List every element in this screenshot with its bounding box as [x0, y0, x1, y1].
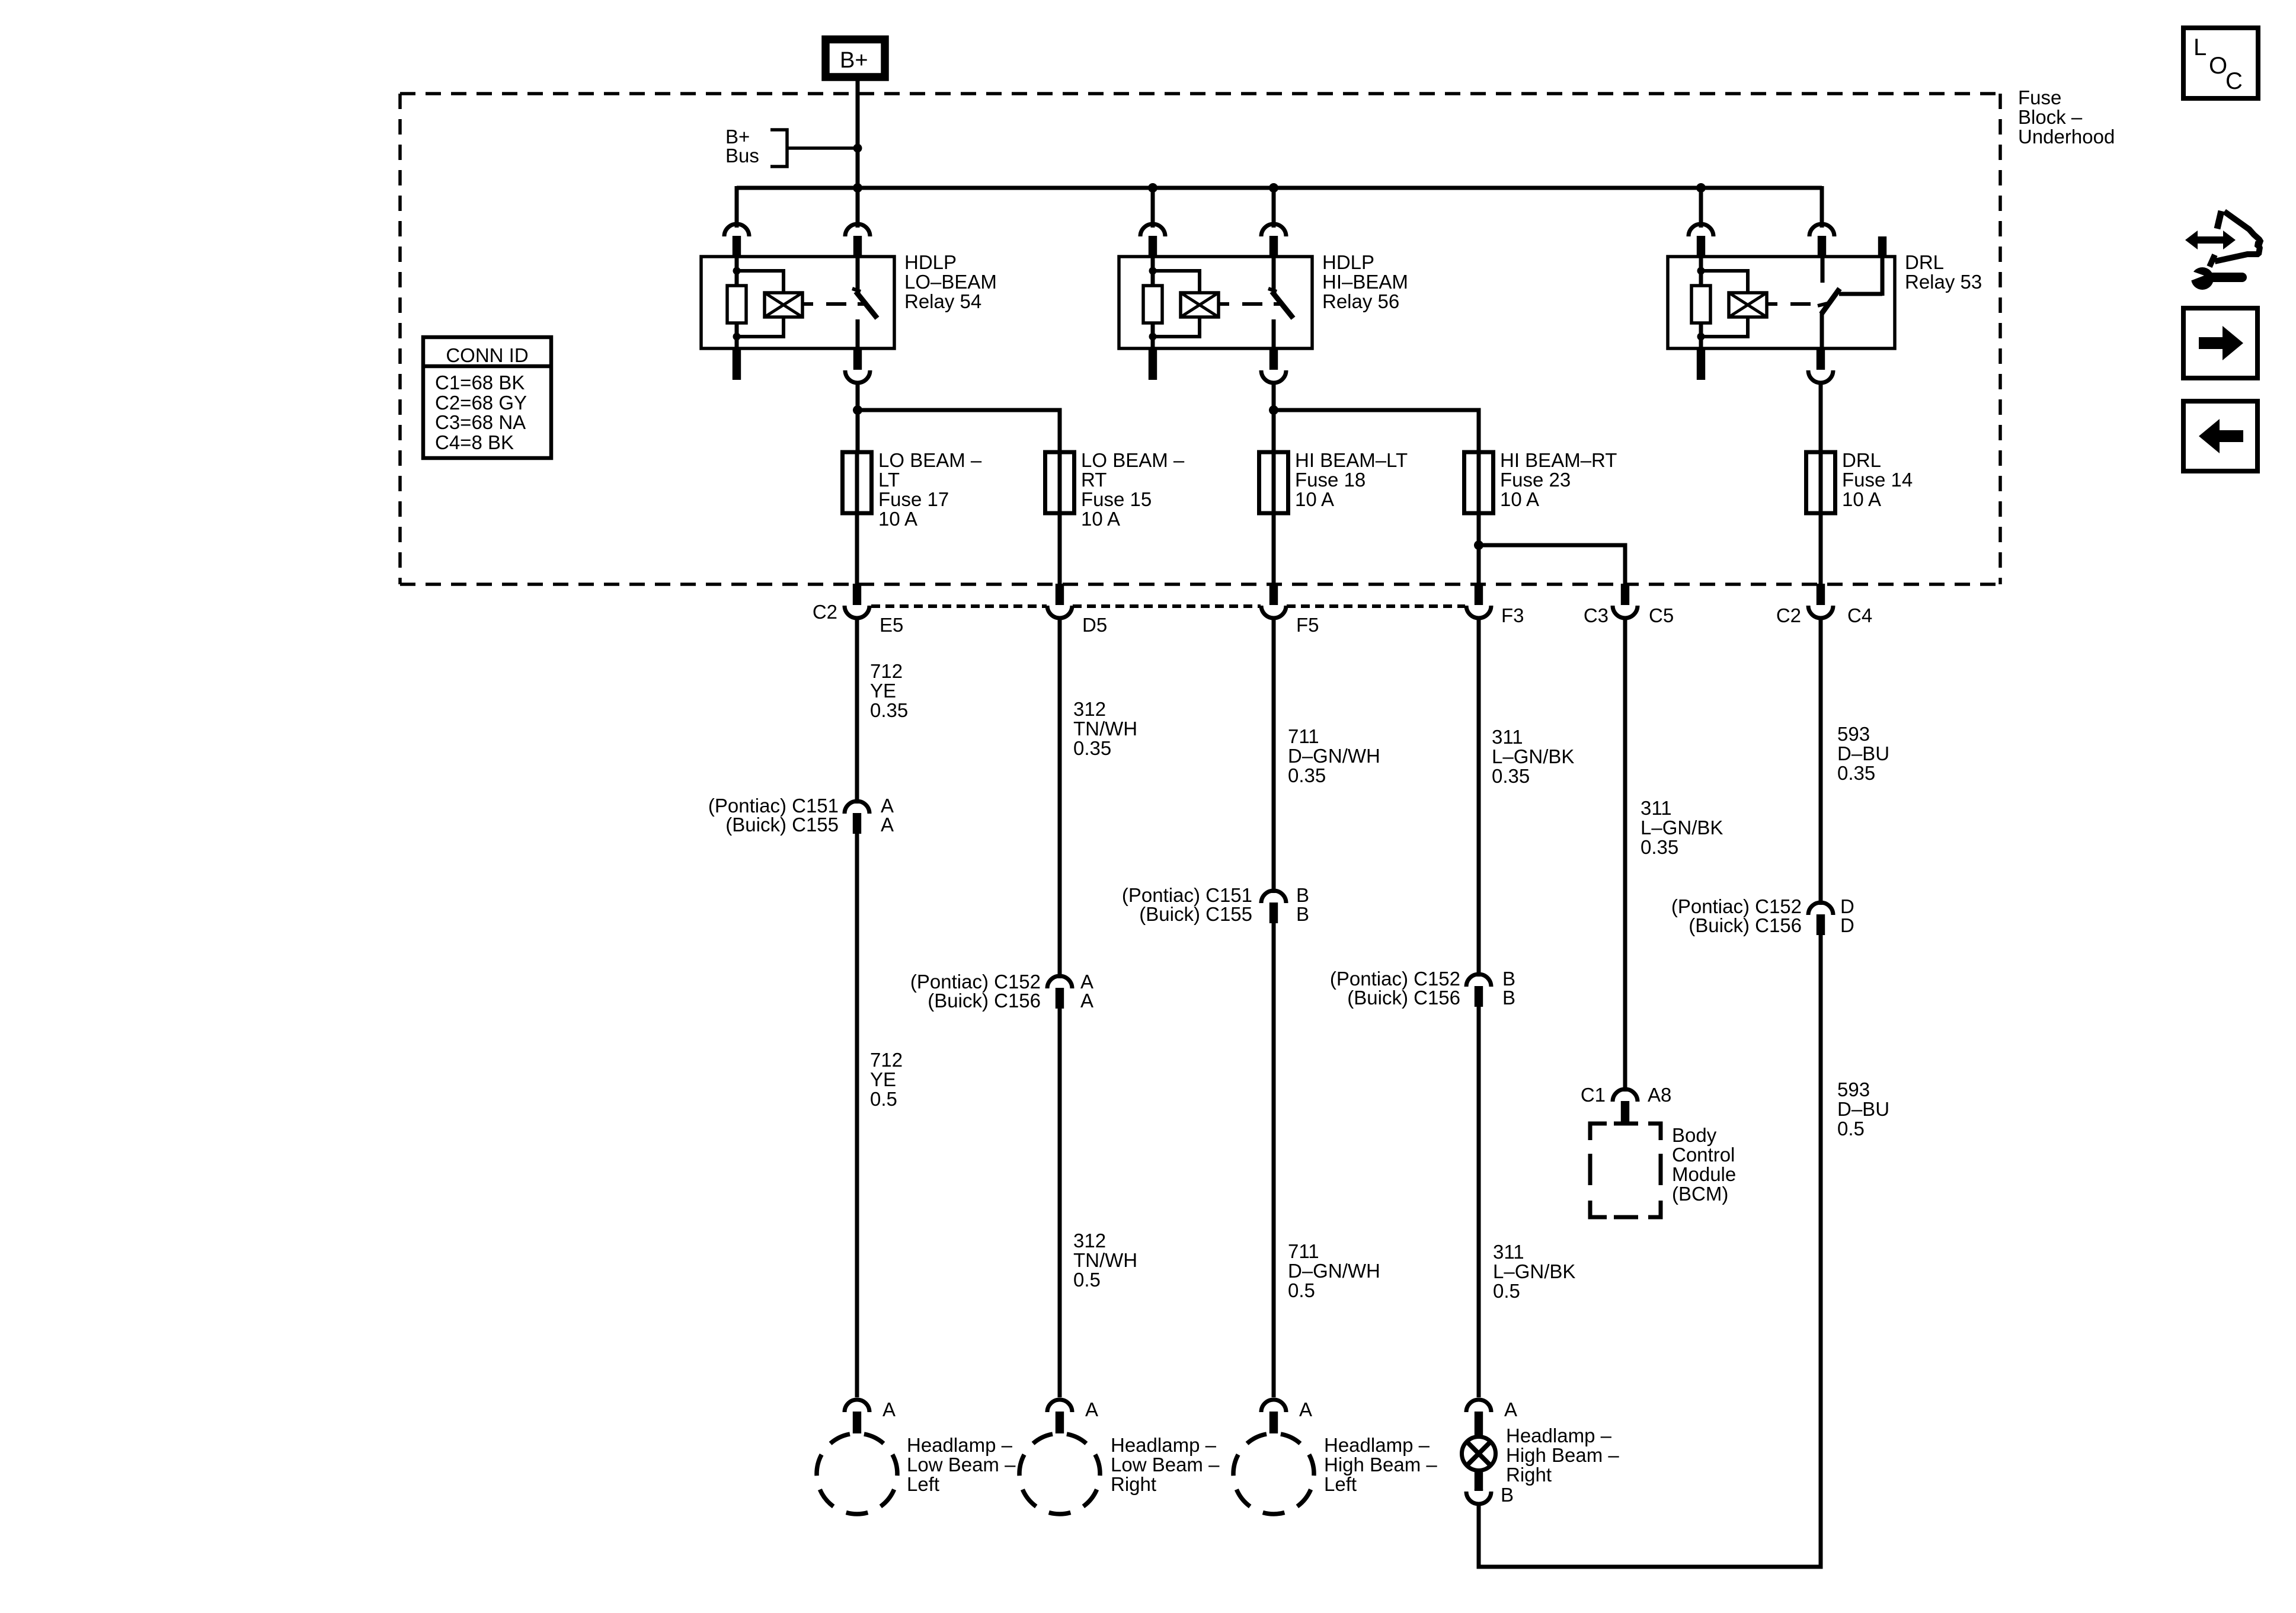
- svg-text:Relay 53: Relay 53: [1905, 271, 1982, 293]
- svg-text:D–GN/WH: D–GN/WH: [1288, 1260, 1380, 1282]
- svg-text:0.5: 0.5: [1288, 1279, 1315, 1301]
- svg-text:D–BU: D–BU: [1837, 743, 1889, 764]
- svg-text:Headlamp –: Headlamp –: [1506, 1425, 1612, 1446]
- svg-text:C2: C2: [1776, 604, 1801, 626]
- svg-text:HI–BEAM: HI–BEAM: [1322, 271, 1408, 293]
- svg-text:711: 711: [1288, 1240, 1319, 1262]
- svg-text:Block –: Block –: [2018, 106, 2083, 128]
- svg-text:B+: B+: [840, 48, 868, 73]
- svg-text:0.35: 0.35: [1492, 765, 1530, 787]
- svg-text:F5: F5: [1296, 614, 1319, 636]
- svg-text:Fuse 17: Fuse 17: [878, 488, 949, 510]
- svg-text:O: O: [2209, 53, 2227, 79]
- svg-text:D: D: [1840, 914, 1854, 936]
- svg-text:A: A: [882, 1398, 896, 1420]
- svg-text:711: 711: [1288, 725, 1319, 747]
- svg-text:10 A: 10 A: [1081, 508, 1120, 530]
- svg-text:C: C: [2225, 68, 2243, 94]
- svg-text:E5: E5: [880, 614, 903, 636]
- svg-text:Fuse 18: Fuse 18: [1295, 469, 1366, 491]
- svg-text:0.5: 0.5: [1073, 1269, 1101, 1291]
- svg-text:0.35: 0.35: [1288, 764, 1326, 786]
- svg-text:Left: Left: [907, 1473, 939, 1495]
- svg-text:C1: C1: [1581, 1084, 1606, 1106]
- svg-text:Bus: Bus: [725, 145, 759, 167]
- svg-text:LT: LT: [878, 469, 900, 491]
- svg-text:C3: C3: [1584, 604, 1609, 626]
- svg-text:712: 712: [870, 1049, 903, 1071]
- svg-text:A: A: [1085, 1398, 1098, 1420]
- svg-text:RT: RT: [1081, 469, 1107, 491]
- svg-text:312: 312: [1073, 1230, 1106, 1252]
- svg-text:C5: C5: [1649, 604, 1674, 626]
- svg-text:D–GN/WH: D–GN/WH: [1288, 745, 1380, 767]
- svg-text:Headlamp –: Headlamp –: [1324, 1434, 1430, 1456]
- svg-text:HDLP: HDLP: [1322, 251, 1374, 273]
- svg-text:593: 593: [1837, 1078, 1870, 1100]
- svg-text:10 A: 10 A: [1295, 488, 1334, 510]
- svg-text:DRL: DRL: [1842, 449, 1881, 471]
- svg-text:YE: YE: [870, 1068, 896, 1090]
- svg-text:593: 593: [1837, 723, 1870, 745]
- svg-text:TN/WH: TN/WH: [1073, 718, 1137, 740]
- svg-text:B: B: [1501, 1484, 1514, 1506]
- svg-text:0.5: 0.5: [870, 1088, 897, 1110]
- svg-text:LO BEAM –: LO BEAM –: [1081, 449, 1185, 471]
- svg-text:B: B: [1296, 903, 1309, 925]
- svg-text:(Buick) C156: (Buick) C156: [928, 990, 1041, 1012]
- svg-text:Fuse: Fuse: [2018, 87, 2061, 108]
- svg-text:CONN ID: CONN ID: [446, 344, 528, 366]
- svg-text:0.35: 0.35: [1641, 836, 1678, 858]
- svg-text:C3=68 NA: C3=68 NA: [435, 411, 526, 433]
- svg-text:Relay 56: Relay 56: [1322, 290, 1399, 312]
- svg-text:D5: D5: [1082, 614, 1107, 636]
- svg-text:C4: C4: [1847, 604, 1872, 626]
- svg-text:(BCM): (BCM): [1672, 1183, 1728, 1205]
- svg-text:C2=68 GY: C2=68 GY: [435, 392, 527, 414]
- svg-text:Headlamp –: Headlamp –: [907, 1434, 1013, 1456]
- svg-text:Right: Right: [1111, 1473, 1156, 1495]
- svg-text:D–BU: D–BU: [1837, 1098, 1889, 1120]
- svg-text:Body: Body: [1672, 1124, 1717, 1146]
- svg-text:0.35: 0.35: [1837, 762, 1875, 784]
- svg-text:C4=8 BK: C4=8 BK: [435, 431, 514, 453]
- svg-text:A8: A8: [1648, 1084, 1671, 1106]
- svg-text:10 A: 10 A: [878, 508, 917, 530]
- svg-text:(Buick) C156: (Buick) C156: [1347, 987, 1460, 1009]
- svg-text:Low Beam –: Low Beam –: [1111, 1454, 1220, 1476]
- svg-text:HI BEAM–RT: HI BEAM–RT: [1500, 449, 1617, 471]
- svg-text:TN/WH: TN/WH: [1073, 1249, 1137, 1271]
- svg-text:A: A: [1299, 1398, 1312, 1420]
- svg-text:0.5: 0.5: [1493, 1280, 1520, 1302]
- svg-text:10 A: 10 A: [1500, 488, 1539, 510]
- svg-text:Headlamp –: Headlamp –: [1111, 1434, 1217, 1456]
- svg-text:C1=68 BK: C1=68 BK: [435, 372, 525, 393]
- svg-text:0.35: 0.35: [870, 699, 908, 721]
- svg-text:High Beam –: High Beam –: [1324, 1454, 1437, 1476]
- svg-text:Left: Left: [1324, 1473, 1357, 1495]
- svg-text:B: B: [1502, 987, 1515, 1009]
- svg-text:Fuse 14: Fuse 14: [1842, 469, 1913, 491]
- svg-text:Fuse 15: Fuse 15: [1081, 488, 1152, 510]
- svg-text:Module: Module: [1672, 1163, 1736, 1185]
- svg-text:L–GN/BK: L–GN/BK: [1641, 817, 1723, 838]
- svg-text:311: 311: [1641, 797, 1672, 819]
- svg-text:0.5: 0.5: [1837, 1118, 1865, 1140]
- svg-text:10 A: 10 A: [1842, 488, 1881, 510]
- svg-text:712: 712: [870, 660, 903, 682]
- svg-text:312: 312: [1073, 698, 1106, 720]
- svg-text:A: A: [881, 814, 894, 836]
- svg-text:LO–BEAM: LO–BEAM: [904, 271, 997, 293]
- svg-text:311: 311: [1492, 726, 1523, 748]
- svg-text:(Buick) C156: (Buick) C156: [1689, 914, 1802, 936]
- svg-text:Right: Right: [1506, 1464, 1552, 1486]
- svg-text:0.35: 0.35: [1073, 737, 1111, 759]
- svg-text:Control: Control: [1672, 1144, 1735, 1166]
- svg-text:Relay 54: Relay 54: [904, 290, 981, 312]
- svg-text:F3: F3: [1501, 604, 1524, 626]
- svg-text:L–GN/BK: L–GN/BK: [1493, 1260, 1575, 1282]
- svg-text:Underhood: Underhood: [2018, 126, 2115, 148]
- svg-text:YE: YE: [870, 680, 896, 702]
- svg-text:C2: C2: [813, 601, 837, 623]
- svg-text:A: A: [1080, 990, 1093, 1012]
- svg-text:Fuse 23: Fuse 23: [1500, 469, 1571, 491]
- svg-text:Low Beam –: Low Beam –: [907, 1454, 1016, 1476]
- svg-text:LO BEAM –: LO BEAM –: [878, 449, 982, 471]
- svg-text:L–GN/BK: L–GN/BK: [1492, 745, 1574, 767]
- svg-text:A: A: [1504, 1398, 1517, 1420]
- svg-text:(Buick) C155: (Buick) C155: [725, 814, 839, 836]
- svg-text:(Buick) C155: (Buick) C155: [1139, 903, 1252, 925]
- svg-text:HI BEAM–LT: HI BEAM–LT: [1295, 449, 1408, 471]
- svg-text:High Beam –: High Beam –: [1506, 1444, 1619, 1466]
- svg-text:L: L: [2193, 34, 2207, 60]
- svg-text:HDLP: HDLP: [904, 251, 957, 273]
- svg-text:311: 311: [1493, 1241, 1524, 1263]
- svg-text:DRL: DRL: [1905, 251, 1944, 273]
